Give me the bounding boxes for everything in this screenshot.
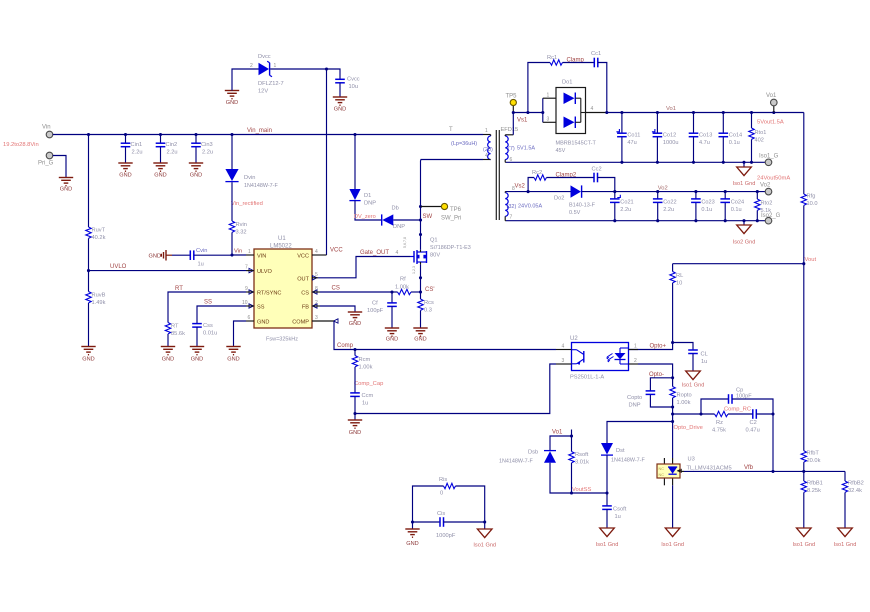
wire Q1 source xyxy=(420,265,422,292)
U1 frequency note xyxy=(266,337,298,343)
ground Iso1 Gnd (RfbB1) xyxy=(792,528,815,548)
net label RT xyxy=(175,286,183,292)
svg-text:Cvin: Cvin xyxy=(196,248,207,254)
svg-text:Vin: Vin xyxy=(234,249,242,255)
capacitor Co14 xyxy=(719,133,743,147)
svg-text:20.0k: 20.0k xyxy=(807,458,821,464)
junction Vfb divider xyxy=(802,470,805,473)
diode Dvcc zener xyxy=(250,54,284,95)
svg-text:GND: GND xyxy=(227,357,239,363)
wire Vo1 stub xyxy=(571,430,573,437)
capacitor Cvcc xyxy=(335,77,360,91)
svg-text:Comp_RC: Comp_RC xyxy=(724,407,751,413)
wire Ropto to Opto_Drive xyxy=(672,398,674,422)
wire U1 pin8 stub xyxy=(312,291,320,293)
transformer T secondary1 winding xyxy=(505,135,535,163)
svg-text:GND: GND xyxy=(82,357,94,363)
resistor RuvT xyxy=(86,227,106,241)
wire Rvin to VIN pin xyxy=(232,232,246,255)
wire Gate_OUT xyxy=(318,257,410,278)
svg-text:GND: GND xyxy=(191,357,203,363)
op-amp U1 LM5022 controller xyxy=(242,236,338,328)
svg-text:FB: FB xyxy=(302,305,309,311)
resistor RuvB xyxy=(86,292,106,307)
wire U1 pin6 stub xyxy=(246,320,254,322)
svg-text:Dst: Dst xyxy=(616,448,625,454)
svg-text:GND: GND xyxy=(414,337,426,343)
svg-text:2.2u: 2.2u xyxy=(202,150,213,156)
svg-text:RT/SYNC: RT/SYNC xyxy=(257,291,281,297)
wire Vfb xyxy=(684,470,845,472)
svg-text:Rc1: Rc1 xyxy=(547,55,557,61)
junction Rto2 bottom xyxy=(756,219,759,222)
wire RfbB2 to ground xyxy=(844,492,846,528)
wire U1 pin5 stub xyxy=(312,277,318,279)
wire TP6 stub xyxy=(421,206,442,208)
wire Co14 stubs xyxy=(722,113,724,163)
svg-text:2.2u: 2.2u xyxy=(663,207,674,213)
net label DV_zero xyxy=(354,214,376,220)
svg-text:0.47u: 0.47u xyxy=(746,428,760,434)
capacitor Co22 xyxy=(653,199,677,213)
junction Co12 top xyxy=(656,111,659,114)
wire U1 pin9 stub xyxy=(246,291,254,293)
junction Do1 bracket xyxy=(541,111,544,114)
svg-text:EFD15: EFD15 xyxy=(501,127,519,133)
svg-text:1: 1 xyxy=(547,93,550,99)
wire RfbB1 stub xyxy=(803,471,805,481)
svg-text:Rcs: Rcs xyxy=(424,300,434,306)
wire Vo2 rail xyxy=(615,191,765,193)
wire Dvcc left xyxy=(232,69,259,91)
svg-text:CS: CS xyxy=(301,291,309,297)
wire Dvin top xyxy=(231,135,233,170)
wire Cin3 stub xyxy=(195,135,197,163)
transformer T primary winding xyxy=(483,128,491,160)
wire U2 pin2 xyxy=(638,364,673,378)
resistor Rcm xyxy=(352,356,372,371)
wire Db to SW xyxy=(393,219,420,221)
svg-text:24Vout50mA: 24Vout50mA xyxy=(757,176,790,182)
wire Rsoft stub xyxy=(571,436,573,452)
junction Vo2 start xyxy=(613,190,616,193)
capacitor Co24 xyxy=(720,199,744,213)
junction Cf node xyxy=(390,290,393,293)
wire Cin2 stub xyxy=(160,135,162,163)
svg-text:Iso1_G: Iso1_G xyxy=(759,154,779,160)
junction Cin2 xyxy=(159,133,162,136)
wire Vo1 rail xyxy=(607,112,804,114)
wire C2 right xyxy=(756,413,773,415)
ground Iso1 Gnd (CL) xyxy=(682,371,705,389)
wire RuvT trunk xyxy=(88,135,90,228)
capacitor Cp xyxy=(729,388,753,404)
svg-text:1u: 1u xyxy=(362,401,368,407)
resistor RL xyxy=(670,264,683,287)
wire Co12 stubs xyxy=(656,113,658,163)
capacitor Co12 xyxy=(652,129,679,146)
wire Rcm stub xyxy=(354,350,356,356)
junction Co13 bottom xyxy=(692,161,695,164)
wire RfbB2 stub xyxy=(844,471,846,481)
wire U3 anode to ground xyxy=(672,485,674,528)
wire Co11 stubs xyxy=(621,113,623,163)
svg-text:12V: 12V xyxy=(258,89,268,95)
svg-text:7: 7 xyxy=(510,215,513,221)
junction Rto1 top xyxy=(750,111,753,114)
ground GND (Cin3) xyxy=(189,163,203,179)
svg-text:Comp: Comp xyxy=(337,343,354,349)
net label SS xyxy=(204,300,212,306)
ground GND (RT) xyxy=(161,347,175,363)
svg-text:U2: U2 xyxy=(570,336,578,342)
wire Vs1 to Do1 xyxy=(513,112,543,114)
net label Vfb xyxy=(744,465,754,471)
wire CL to ground xyxy=(692,354,694,372)
svg-text:Iso1 Gnd: Iso1 Gnd xyxy=(473,543,496,549)
wire Cf to ground xyxy=(391,306,393,327)
svg-text:Db: Db xyxy=(392,206,399,212)
junction Dvin xyxy=(230,133,233,136)
junction clamp1 xyxy=(526,111,529,114)
transformer T labels xyxy=(449,127,518,153)
svg-text:Csoft: Csoft xyxy=(613,507,627,513)
junction Co13 top xyxy=(692,111,695,114)
svg-text:Dvcc: Dvcc xyxy=(258,54,271,60)
junction Co11 top xyxy=(620,111,623,114)
wire Ccm gnd stub xyxy=(354,414,356,420)
svg-text:Iso1 Gnd: Iso1 Gnd xyxy=(733,181,756,187)
wire Dvcc to VCC node xyxy=(270,68,326,70)
svg-text:SS: SS xyxy=(257,305,265,311)
svg-text:5Vout1.5A: 5Vout1.5A xyxy=(757,120,784,126)
svg-text:CL: CL xyxy=(701,352,708,358)
svg-text:RT: RT xyxy=(171,324,179,330)
wire Co13 stubs xyxy=(693,113,695,163)
svg-text:Iso1 Gnd: Iso1 Gnd xyxy=(834,542,857,548)
svg-text:5,6,7,8: 5,6,7,8 xyxy=(403,237,407,248)
wire Vo1 to Rfg xyxy=(803,113,805,195)
wire Dvin to Rvin xyxy=(231,182,233,221)
wire Do2 to Vo2 xyxy=(582,191,615,193)
wire Ris top left xyxy=(413,486,444,522)
wire iso1 gnd stub xyxy=(743,162,745,167)
svg-text:8.25k: 8.25k xyxy=(807,488,821,494)
svg-text:Vo2: Vo2 xyxy=(658,186,668,192)
junction Vo1 pad xyxy=(772,111,775,114)
net label CS' xyxy=(425,287,434,293)
junction VIN node xyxy=(230,253,233,256)
capacitor Cc1 xyxy=(591,51,601,67)
net label SW xyxy=(423,214,433,220)
wire Rcs to ground xyxy=(420,310,422,327)
svg-text:1u: 1u xyxy=(701,359,707,365)
svg-text:Rto2: Rto2 xyxy=(761,201,773,207)
wire Cin1 stub xyxy=(125,135,127,163)
wire D1 stub xyxy=(354,135,356,190)
svg-text:0.5V: 0.5V xyxy=(569,210,581,216)
wire Vo1 pad stub xyxy=(773,106,775,113)
junction Vfb comp xyxy=(771,470,774,473)
svg-text:4: 4 xyxy=(562,344,565,350)
svg-text:GND: GND xyxy=(226,100,238,106)
svg-text:Co14: Co14 xyxy=(729,133,742,139)
svg-text:1N4148W-7-F: 1N4148W-7-F xyxy=(611,458,645,464)
svg-text:Co21: Co21 xyxy=(620,200,633,206)
svg-text:5V1.5A: 5V1.5A xyxy=(517,146,535,152)
wire RfbB1 to ground xyxy=(803,492,805,528)
wire VoutSS to Csoft xyxy=(572,492,608,494)
port Vo1 xyxy=(766,93,777,106)
resistor Rto1 xyxy=(749,128,767,144)
op-amp U3 shunt regulator LMV431 xyxy=(657,457,732,486)
junction iso2 gnd xyxy=(742,219,745,222)
capacitor Cin2 xyxy=(156,142,178,156)
junction Q1 drain pins xyxy=(419,233,422,236)
svg-text:1000u: 1000u xyxy=(663,140,679,146)
svg-text:Vin: Vin xyxy=(42,125,51,131)
svg-text:0.3: 0.3 xyxy=(424,308,432,314)
svg-text:4: 4 xyxy=(396,250,399,256)
wire FB to ground xyxy=(320,306,355,312)
svg-text:4.75k: 4.75k xyxy=(712,428,726,434)
svg-text:Vout: Vout xyxy=(805,257,817,263)
port Iso1_G xyxy=(759,154,779,166)
wire iso1 rail xyxy=(506,161,765,163)
svg-text:TP5: TP5 xyxy=(506,94,518,100)
svg-text:Rto1: Rto1 xyxy=(755,130,767,136)
wire Ropto stub xyxy=(672,378,674,387)
junction Co22 bottom xyxy=(656,219,659,222)
wire Rto1 stubs xyxy=(751,113,753,163)
wire VCC vertical xyxy=(326,69,328,255)
net label VoutSS xyxy=(572,487,591,493)
resistor Rz xyxy=(712,411,728,433)
capacitor Cf xyxy=(367,301,397,315)
svg-text:Comp_Cap: Comp_Cap xyxy=(354,381,383,387)
wire Rc2 to Cc2 xyxy=(547,177,595,179)
diode Dsb xyxy=(499,450,556,465)
svg-text:Gate_OUT: Gate_OUT xyxy=(360,250,389,256)
diode Do2 xyxy=(554,185,596,216)
wire U3 cathode xyxy=(672,422,674,459)
svg-text:RuvB: RuvB xyxy=(92,293,106,299)
svg-text:(Lp=36uH): (Lp=36uH) xyxy=(451,141,477,147)
wire Q1 drain xyxy=(420,235,422,250)
wire Rcm to Ccm xyxy=(354,367,356,393)
svg-text:(32): (32) xyxy=(507,204,517,210)
diode Dst xyxy=(601,443,645,464)
net label Vs2 xyxy=(515,184,526,190)
svg-text:Do1: Do1 xyxy=(562,80,572,86)
junction Rto2 top xyxy=(756,190,759,193)
net label Vin_rectified xyxy=(231,201,263,207)
svg-text:RT: RT xyxy=(175,286,183,292)
junction C2 right xyxy=(771,412,774,415)
wire U3 ref to Vfb xyxy=(681,470,684,472)
svg-text:GND: GND xyxy=(257,320,269,326)
junction Vo1 start xyxy=(605,111,608,114)
svg-text:Vo1: Vo1 xyxy=(766,93,777,99)
svg-text:1N4148W-7-F: 1N4148W-7-F xyxy=(244,183,278,189)
svg-text:SW: SW xyxy=(423,214,433,220)
svg-text:45V: 45V xyxy=(556,148,566,154)
svg-text:402: 402 xyxy=(755,138,764,144)
svg-text:3: 3 xyxy=(547,117,550,123)
svg-text:NC: NC xyxy=(659,467,665,471)
port Pri_G xyxy=(38,152,54,166)
svg-text:Rcm: Rcm xyxy=(359,357,371,363)
svg-text:GND: GND xyxy=(154,173,166,179)
svg-text:1.00k: 1.00k xyxy=(677,400,691,406)
ground GND (Cvin) xyxy=(149,250,173,261)
wire Vin_main rail xyxy=(53,134,483,136)
svg-text:GND: GND xyxy=(190,173,202,179)
svg-text:2: 2 xyxy=(250,63,253,69)
ground GND (Pri_G) xyxy=(59,178,73,193)
svg-text:LM5022: LM5022 xyxy=(270,244,292,250)
svg-text:Opto_Drive: Opto_Drive xyxy=(674,425,703,431)
svg-text:Css: Css xyxy=(203,323,213,329)
svg-text:3.32: 3.32 xyxy=(236,230,247,236)
wire iso2 gnd stub xyxy=(743,221,745,225)
svg-text:Vin_main: Vin_main xyxy=(247,128,272,134)
net label Vo2 rail xyxy=(658,186,668,192)
svg-text:GND: GND xyxy=(349,321,361,327)
svg-text:Cin3: Cin3 xyxy=(201,142,213,148)
svg-text:4: 4 xyxy=(315,249,318,255)
svg-text:100pF: 100pF xyxy=(367,308,384,314)
wire Rcs stub xyxy=(420,292,422,299)
transistor Q1 MOSFET xyxy=(403,237,471,274)
wire Rfg to Vout xyxy=(803,205,805,263)
wire Rz to C2 xyxy=(728,413,753,415)
svg-text:Pri_G: Pri_G xyxy=(38,161,54,167)
wire GND stub (bridge) xyxy=(412,522,414,529)
svg-text:Vs2: Vs2 xyxy=(515,184,526,190)
svg-text:Co13: Co13 xyxy=(699,133,712,139)
svg-text:GND: GND xyxy=(386,337,398,343)
svg-text:19.2to28.8Vin: 19.2to28.8Vin xyxy=(3,142,39,148)
wire RT xyxy=(168,292,246,323)
junction Cin1 xyxy=(124,133,127,136)
net label Vin_main xyxy=(247,128,272,134)
wire Csoft stub xyxy=(606,493,608,506)
wire Dst to VoutSS xyxy=(606,455,608,493)
svg-text:Cf: Cf xyxy=(372,301,378,307)
resistor Rf xyxy=(395,277,411,295)
wire RuvB top xyxy=(88,271,90,292)
svg-text:Iso1 Gnd: Iso1 Gnd xyxy=(792,542,815,548)
ground GND (Cin2) xyxy=(153,163,167,179)
svg-text:RuvT: RuvT xyxy=(92,228,106,234)
svg-text:1N4148W-7-F: 1N4148W-7-F xyxy=(499,459,533,465)
svg-text:Cin1: Cin1 xyxy=(131,142,143,148)
transformer T core xyxy=(496,130,499,220)
svg-text:DV_zero: DV_zero xyxy=(354,214,376,220)
svg-text:10: 10 xyxy=(242,300,248,306)
svg-text:4: 4 xyxy=(485,153,488,159)
junction Cis left xyxy=(411,520,414,523)
svg-text:Do2: Do2 xyxy=(554,196,564,202)
resistor Ris xyxy=(439,477,456,497)
svg-text:24V0.05A: 24V0.05A xyxy=(518,204,542,210)
resistor RfbB2 xyxy=(842,481,864,495)
resistor RfbT xyxy=(801,451,820,465)
resistor Rc1 xyxy=(547,55,563,65)
svg-text:0: 0 xyxy=(440,491,443,497)
svg-text:GND: GND xyxy=(119,173,131,179)
svg-text:0.01u: 0.01u xyxy=(203,331,217,337)
wire Cf stub xyxy=(391,292,393,303)
wire Iso gnd stub (bridge) xyxy=(484,522,486,529)
wire Opto_Drive to Dst xyxy=(607,422,673,444)
junction Cp left xyxy=(699,412,702,415)
svg-text:(20): (20) xyxy=(483,147,493,153)
svg-text:Rvin: Rvin xyxy=(236,222,247,228)
svg-text:COMP: COMP xyxy=(292,320,309,326)
op-amp U2 optocoupler PS2501 xyxy=(556,336,638,381)
junction UVLO xyxy=(87,269,90,272)
wire Css to ground xyxy=(196,327,198,346)
wire UVLO xyxy=(89,270,247,272)
svg-text:3: 3 xyxy=(562,358,565,364)
svg-text:4: 4 xyxy=(591,106,594,112)
wire U1 pin7 stub xyxy=(246,270,254,272)
svg-text:UVLO: UVLO xyxy=(110,264,127,270)
svg-text:Opto+: Opto+ xyxy=(650,344,667,350)
capacitor Cc2 xyxy=(592,167,602,183)
net label Opto- xyxy=(649,372,664,378)
wire U2 pin3 xyxy=(355,364,556,414)
wire RuvB to ground xyxy=(88,303,90,346)
wire Cp right xyxy=(732,399,773,414)
svg-text:OUT: OUT xyxy=(297,277,309,283)
svg-text:Cvcc: Cvcc xyxy=(347,77,360,83)
svg-text:Q1: Q1 xyxy=(430,238,438,244)
net label Comp_Cap xyxy=(354,381,383,387)
svg-text:Rc2: Rc2 xyxy=(532,170,542,176)
svg-text:80V: 80V xyxy=(430,253,440,259)
capacitor Cis xyxy=(436,511,456,539)
svg-text:Co11: Co11 xyxy=(627,133,640,139)
svg-text:Cc1: Cc1 xyxy=(591,51,601,57)
wire Do1 anode bracket xyxy=(543,93,556,123)
junction Rto1 bottom xyxy=(750,161,753,164)
wire Dsb branch xyxy=(550,436,572,451)
svg-text:CS': CS' xyxy=(425,287,434,293)
resistor RfbB1 xyxy=(801,481,823,495)
svg-text:Cc2: Cc2 xyxy=(592,167,602,173)
ground GND (RuvB) xyxy=(81,347,95,363)
capacitor C2 xyxy=(746,409,760,433)
svg-text:47u: 47u xyxy=(627,140,636,146)
resistor Rfg xyxy=(801,194,817,208)
resistor Rto2 xyxy=(755,199,773,214)
wire U1 pin4 stub xyxy=(312,254,327,256)
svg-text:1u: 1u xyxy=(615,514,621,520)
wire Cc2 down xyxy=(598,178,615,192)
svg-text:2.2u: 2.2u xyxy=(132,150,143,156)
diode Db DNP xyxy=(382,206,406,231)
svg-text:Si7186DP-T1-E3: Si7186DP-T1-E3 xyxy=(430,245,471,251)
svg-text:Ccm: Ccm xyxy=(362,393,374,399)
junction Co24 top xyxy=(724,190,727,193)
wire Cis bottom right xyxy=(444,521,485,523)
junction iso1 gnd xyxy=(742,161,745,164)
svg-text:Vs1: Vs1 xyxy=(517,118,528,124)
svg-text:2: 2 xyxy=(634,358,637,364)
